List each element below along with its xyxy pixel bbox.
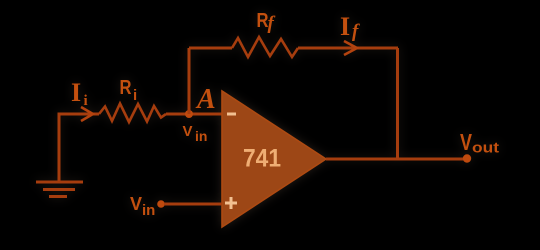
svg-text:V: V [130, 194, 142, 214]
inverting pin minus [227, 113, 236, 116]
wire: Vin to non-inverting input [164, 203, 222, 206]
label Vin at node A [183, 123, 208, 144]
svg-text:741: 741 [243, 145, 281, 173]
label 741 [243, 145, 281, 173]
source Vin dot [157, 200, 165, 208]
svg-text:I: I [340, 12, 350, 41]
svg-text:A: A [195, 84, 216, 115]
svg-text:R: R [120, 77, 132, 99]
svg-text:f: f [268, 13, 276, 34]
output wire [326, 158, 464, 161]
non-inverting pin plus [225, 197, 237, 209]
svg-text:I: I [71, 78, 81, 107]
current arrow If [344, 41, 357, 55]
wire: feedback down to output [396, 48, 399, 159]
ground [36, 182, 83, 197]
resistor Ri [99, 104, 166, 123]
resistor Rf [232, 37, 298, 57]
label Ii [71, 78, 88, 109]
label Rf [257, 10, 276, 34]
svg-text:V: V [183, 123, 193, 140]
wire: feedback top right segment [298, 47, 398, 50]
label Ri [120, 77, 138, 104]
svg-text:in: in [195, 128, 207, 144]
wire: node A up to feedback [188, 48, 191, 114]
label Vout [460, 129, 499, 157]
label If [340, 12, 360, 42]
current arrow Ii [81, 107, 93, 121]
op-amp U1 (741) [222, 91, 326, 227]
label Vin bottom [130, 194, 155, 219]
svg-text:i: i [84, 93, 88, 109]
svg-text:i: i [133, 87, 137, 104]
svg-text:out: out [472, 140, 499, 157]
svg-text:f: f [352, 21, 360, 42]
wire: feedback top left segment [189, 47, 232, 50]
node A [185, 110, 193, 118]
wire: node A to inverting input [166, 113, 222, 116]
node Vout [463, 154, 471, 162]
svg-text:V: V [460, 129, 473, 155]
label A [195, 84, 216, 115]
wire: ground feed + left input segment [59, 114, 99, 182]
svg-text:in: in [142, 202, 155, 219]
